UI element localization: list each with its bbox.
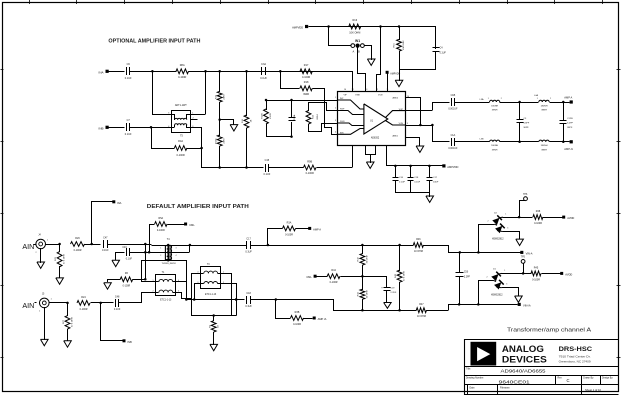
wire <box>108 243 152 246</box>
wire <box>201 148 203 168</box>
svg-text:AMP A: AMP A <box>564 95 572 99</box>
capacitor C3 (shunt) <box>517 102 530 142</box>
svg-text:0.1UF: 0.1UF <box>114 308 121 311</box>
svg-text:R44: R44 <box>331 269 336 272</box>
svg-text:180NH: 180NH <box>491 145 498 147</box>
node AVDD (pad) <box>560 272 572 277</box>
svg-text:16: 16 <box>344 89 346 91</box>
wire <box>176 293 192 299</box>
capacitor C48 <box>114 295 121 311</box>
wire <box>152 127 175 149</box>
svg-text:0.1UF: 0.1UF <box>102 249 109 252</box>
resistor R3A <box>283 221 296 236</box>
node AMP A (net pad) <box>308 227 321 232</box>
svg-text:0-100R: 0-100R <box>306 172 314 175</box>
svg-text:1: 1 <box>537 98 538 100</box>
svg-text:4: 4 <box>335 132 336 134</box>
svg-text:DEVICES: DEVICES <box>502 354 547 364</box>
wire <box>269 167 304 169</box>
wire <box>520 102 539 104</box>
svg-text:0.1UF: 0.1UF <box>440 53 447 55</box>
svg-text:AMPVDD: AMPVDD <box>292 25 303 29</box>
svg-text:R17: R17 <box>304 64 309 67</box>
svg-text:CML: CML <box>189 223 195 227</box>
svg-text:ENB: ENB <box>356 95 361 97</box>
drawing number row <box>466 377 613 385</box>
svg-text:L4A: L4A <box>534 94 538 97</box>
svg-text:R26: R26 <box>75 237 80 240</box>
capacitor C7 <box>125 119 132 136</box>
node AMP A (output pad) <box>564 95 573 103</box>
wire <box>267 135 293 138</box>
svg-text:C17: C17 <box>246 237 251 240</box>
svg-text:4: 4 <box>176 255 177 257</box>
svg-text:ETC1-1-13: ETC1-1-13 <box>160 300 172 302</box>
svg-text:C3A: C3A <box>261 63 266 66</box>
svg-text:1: 1 <box>47 240 48 242</box>
resistor R43 (57.6 OHM, vertical) <box>395 245 406 311</box>
resistor R46 <box>413 238 423 253</box>
wire <box>543 217 563 219</box>
svg-text:0-100R: 0-100R <box>293 323 301 326</box>
wire <box>309 25 436 28</box>
svg-text:0-100R: 0-100R <box>123 286 131 288</box>
svg-text:0-100R: 0-100R <box>532 278 540 281</box>
test point TP5 <box>521 257 526 264</box>
svg-text:2: 2 <box>35 252 36 254</box>
svg-text:R45: R45 <box>534 266 539 269</box>
svg-text:L3B: L3B <box>480 139 484 141</box>
svg-text:R5A: R5A <box>158 217 163 220</box>
svg-text:INN: INN <box>340 133 344 135</box>
wire <box>520 141 539 143</box>
svg-text:RGP: RGP <box>340 109 345 111</box>
ground (pin AMD1) <box>406 138 424 153</box>
svg-text:2: 2 <box>488 220 489 222</box>
transformer T5 (ADT1-1WT) <box>168 104 197 137</box>
wire <box>424 245 462 254</box>
wire <box>192 273 201 316</box>
wire (AMD0 to VON) <box>406 97 422 126</box>
wire <box>358 47 366 92</box>
svg-text:AMPVDD: AMPVDD <box>447 165 458 169</box>
wire <box>523 263 525 273</box>
wire <box>502 272 532 275</box>
wire (AMPVDD rail) <box>387 165 444 168</box>
svg-text:0.1UF: 0.1UF <box>126 259 133 261</box>
svg-text:C: C <box>566 378 569 383</box>
svg-text:0.1UF: 0.1UF <box>263 173 270 176</box>
svg-text:Greensboro, NC 27409: Greensboro, NC 27409 <box>559 360 592 364</box>
wire <box>406 102 450 111</box>
svg-text:R3A: R3A <box>287 221 292 224</box>
svg-text:0-100R: 0-100R <box>330 281 338 284</box>
resistor R26 <box>71 237 85 252</box>
wire <box>460 303 518 306</box>
node CML (lower pad) <box>306 275 316 280</box>
capacitor C19 (2.2UF) <box>381 276 397 303</box>
svg-text:Sheet 1 of 10: Sheet 1 of 10 <box>585 388 601 392</box>
capacitor C18 (series) <box>245 292 252 308</box>
wire <box>377 27 381 92</box>
resistor R5A <box>155 217 168 232</box>
ground <box>210 344 218 350</box>
wire <box>276 299 291 319</box>
svg-text:2: 2 <box>550 98 551 100</box>
resistor R24 <box>77 296 90 311</box>
wire <box>186 260 188 300</box>
wire (amp input node) <box>265 99 338 102</box>
svg-text:3: 3 <box>506 284 507 286</box>
resistor R10B (24R9, vertical) <box>215 71 225 102</box>
svg-text:36PF: 36PF <box>523 127 529 129</box>
resistor R7 (1K, vertical) <box>209 315 219 345</box>
svg-text:TP5: TP5 <box>521 257 526 259</box>
node INA (net pad) <box>112 200 121 205</box>
wire <box>153 71 172 115</box>
svg-text:1: 1 <box>51 299 52 301</box>
wire <box>309 124 338 132</box>
logo text ANALOG DEVICES <box>502 344 547 365</box>
date row <box>470 386 602 392</box>
wire <box>109 127 125 129</box>
inductor L4A (180NH) <box>534 94 551 112</box>
svg-text:R8A: R8A <box>180 64 185 67</box>
wire <box>119 302 142 304</box>
resistor R6 <box>120 273 133 287</box>
svg-text:R4A: R4A <box>178 140 183 143</box>
wire <box>341 275 387 278</box>
svg-text:Filename:: Filename: <box>500 387 510 389</box>
ground <box>41 307 49 346</box>
svg-text:Drawn By:: Drawn By: <box>583 377 594 380</box>
svg-text:39NH: 39NH <box>541 149 547 151</box>
wire <box>329 26 352 46</box>
node CML (pad) <box>184 223 195 228</box>
svg-text:33 OHM: 33 OHM <box>366 290 368 298</box>
wire <box>187 127 203 149</box>
svg-text:AMD1: AMD1 <box>392 135 398 138</box>
op-amp U1 (AD8352) <box>335 89 409 146</box>
resistor R12B (4.12R, vertical) <box>262 100 272 137</box>
svg-text:ANALOG: ANALOG <box>502 344 544 354</box>
svg-text:0.1UF: 0.1UF <box>245 250 252 253</box>
resistor R45 <box>531 266 541 281</box>
wire <box>130 245 190 253</box>
svg-text:INB: INB <box>98 126 103 130</box>
wire <box>479 225 495 253</box>
svg-text:3: 3 <box>176 248 177 250</box>
capacitor C18 <box>408 165 421 193</box>
svg-text:ETC1-1-13: ETC1-1-13 <box>205 294 217 296</box>
resistor R27 (57.6 OHM, vertical) <box>63 302 74 341</box>
svg-text:VIN-A: VIN-A <box>526 251 533 255</box>
wire <box>50 302 69 305</box>
svg-text:R16: R16 <box>353 19 358 22</box>
connector J5 (AIN SMA) <box>39 293 52 312</box>
transformer T1 (ETC1-1-13) <box>153 272 180 301</box>
wire <box>281 71 300 89</box>
resistor R8A <box>176 64 189 79</box>
wire <box>365 45 372 60</box>
svg-text:DEFAULT AMPLIFIER INPUT PATH: DEFAULT AMPLIFIER INPUT PATH <box>147 204 249 210</box>
svg-text:0.1UF: 0.1UF <box>414 181 421 183</box>
wire <box>317 145 353 168</box>
svg-text:AMPVDD: AMPVDD <box>390 72 400 75</box>
wire <box>396 192 430 197</box>
svg-text:390R: 390R <box>303 93 309 96</box>
resistor R41 (33 OHM, vertical) <box>358 276 369 311</box>
svg-text:36PF: 36PF <box>567 127 573 129</box>
wire <box>168 224 185 226</box>
wire <box>130 70 177 73</box>
svg-text:TURNS_RATIO: TURNS_RATIO <box>161 262 176 265</box>
wire <box>460 251 521 254</box>
svg-text:2: 2 <box>160 255 161 257</box>
svg-text:Date:: Date: <box>470 386 476 389</box>
wire <box>503 216 533 219</box>
svg-text:57.6 OHM: 57.6 OHM <box>71 317 73 327</box>
diode D2 (HSMS2812 clamp pair) <box>488 212 509 240</box>
node AMPVDD (supply pad) <box>292 25 308 30</box>
svg-text:VCM: VCM <box>378 95 383 97</box>
svg-text:10 OHM: 10 OHM <box>417 315 426 318</box>
wire <box>150 224 155 252</box>
wire <box>185 298 244 301</box>
wire (ground bus) <box>192 314 237 317</box>
svg-text:2.2UF: 2.2UF <box>390 292 397 294</box>
ground <box>112 252 125 267</box>
wire <box>130 126 172 129</box>
svg-text:10K OHM: 10K OHM <box>349 32 360 35</box>
svg-text:0.1UF: 0.1UF <box>260 77 267 80</box>
svg-text:AIN: AIN <box>22 242 34 251</box>
svg-text:R3B: R3B <box>295 311 300 314</box>
svg-text:R10C: R10C <box>215 138 217 144</box>
svg-text:C15: C15 <box>265 159 270 162</box>
svg-text:0-100R: 0-100R <box>285 233 293 236</box>
svg-text:INB: INB <box>127 340 132 344</box>
svg-text:Transformer/amp channel A: Transformer/amp channel A <box>507 328 591 334</box>
resistor R17 <box>300 64 312 79</box>
wire <box>142 260 156 282</box>
svg-text:Title:: Title: <box>466 368 471 371</box>
resistor R48 <box>533 210 543 225</box>
Analog Devices logo <box>471 342 496 365</box>
svg-text:13: 13 <box>365 89 367 91</box>
resistor R18 <box>300 81 312 96</box>
wire <box>221 284 238 316</box>
svg-text:RGN: RGN <box>340 121 345 123</box>
wire <box>144 244 147 281</box>
title row <box>466 368 546 375</box>
capacitor C3A <box>260 63 267 80</box>
svg-text:0-100R: 0-100R <box>157 229 165 232</box>
node AVDD (pad) <box>562 216 574 221</box>
inductor L3B (180NH) <box>480 139 500 152</box>
wire <box>191 71 206 115</box>
test point TP6 <box>523 194 528 201</box>
wire <box>142 259 187 262</box>
svg-text:39NH: 39NH <box>492 110 498 112</box>
ground <box>56 278 64 284</box>
wire <box>304 318 313 320</box>
svg-text:+: + <box>381 285 383 289</box>
resistor R11 (1K, vertical) <box>242 71 252 168</box>
resistor R25 (57.6 OHM, vertical) <box>55 244 66 278</box>
wire <box>92 201 113 244</box>
wire <box>363 309 417 312</box>
wire <box>91 302 114 305</box>
svg-text:3: 3 <box>335 120 336 122</box>
wire <box>195 284 201 300</box>
resistor R47 <box>416 303 426 318</box>
svg-text:7910 Triad Center Dr.: 7910 Triad Center Dr. <box>559 355 591 359</box>
capacitor C47 <box>102 236 109 252</box>
wire <box>550 141 570 144</box>
address lines <box>559 355 592 364</box>
wire <box>427 303 461 310</box>
wire <box>133 279 146 281</box>
svg-text:1: 1 <box>488 98 489 100</box>
wire <box>363 244 414 247</box>
capacitor C4 <box>433 26 447 70</box>
svg-text:180NH: 180NH <box>541 145 548 147</box>
svg-text:57.6 OHM: 57.6 OHM <box>63 254 65 264</box>
svg-text:C47: C47 <box>103 236 108 239</box>
svg-text:A: A <box>353 50 355 54</box>
wire <box>176 281 187 283</box>
svg-text:0-100R: 0-100R <box>176 154 184 157</box>
svg-text:5.2PF: 5.2PF <box>567 122 574 124</box>
svg-text:57.6 OHM: 57.6 OHM <box>404 271 406 281</box>
resistor R42 (33 OHM, vertical) <box>358 245 369 277</box>
svg-text:0.1UF: 0.1UF <box>245 305 252 308</box>
svg-text:0.001UF: 0.001UF <box>448 147 458 150</box>
svg-text:10K OHM: 10K OHM <box>403 40 405 50</box>
wire <box>313 88 338 135</box>
wire <box>455 102 490 104</box>
svg-text:1: 1 <box>505 214 506 216</box>
connector J4 (AIN SMA) <box>35 234 48 253</box>
ground <box>426 196 434 202</box>
node INB (net pad) <box>123 339 132 344</box>
svg-text:1: 1 <box>160 248 161 250</box>
capacitor C14A <box>289 100 297 137</box>
svg-text:10UF: 10UF <box>433 181 439 183</box>
svg-text:C50: C50 <box>464 271 469 273</box>
svg-text:VOP: VOP <box>399 109 404 111</box>
capacitor C12B (shunt) <box>560 102 574 142</box>
wire <box>85 243 101 246</box>
svg-text:B: B <box>358 50 360 54</box>
ground <box>367 59 375 65</box>
capacitor C15 <box>263 159 270 176</box>
node VIN-/A (pad) <box>518 303 531 308</box>
capacitor C50 (2.2PF) <box>456 252 471 305</box>
svg-text:INA: INA <box>117 201 122 205</box>
wire <box>221 274 232 316</box>
wire <box>542 273 561 275</box>
svg-text:2: 2 <box>487 277 488 279</box>
svg-text:0.1UF: 0.1UF <box>125 77 132 80</box>
resistor R10C (24R9, vertical) <box>215 135 225 168</box>
svg-text:14: 14 <box>351 89 353 91</box>
svg-text:0.1UF: 0.1UF <box>125 133 132 136</box>
svg-text:R12B: R12B <box>262 113 264 119</box>
svg-text:ADT1-1WT: ADT1-1WT <box>175 104 187 107</box>
ground <box>395 69 403 87</box>
svg-text:33 OHM: 33 OHM <box>366 255 368 263</box>
svg-text:VON: VON <box>399 123 404 125</box>
svg-text:AD9640/AD6655: AD9640/AD6655 <box>501 368 546 374</box>
resistor R15 (10K, vertical) <box>394 26 405 70</box>
svg-text:39NH: 39NH <box>492 149 498 151</box>
wire <box>251 298 334 301</box>
ground <box>104 279 121 289</box>
svg-text:AVDD: AVDD <box>567 216 574 220</box>
node VIN-A (pad) <box>520 251 533 256</box>
wire <box>386 145 388 166</box>
wire <box>500 141 521 144</box>
svg-text:CML: CML <box>306 275 312 279</box>
wire <box>479 281 494 305</box>
svg-text:3: 3 <box>507 227 508 229</box>
node INB (top input pad) <box>98 126 108 131</box>
wire <box>101 302 123 341</box>
svg-text:AIN: AIN <box>22 301 34 310</box>
transformer T3 (ETC1-1-13) <box>197 264 224 296</box>
resistor R13 (gain resistor, vertical) <box>306 102 319 132</box>
svg-text:HSMS2812: HSMS2812 <box>491 295 503 297</box>
wire <box>218 102 221 136</box>
svg-text:10 OHM: 10 OHM <box>414 250 423 253</box>
node INA (top input pad) <box>98 70 108 75</box>
ground (op-amp exposed pad) <box>366 146 376 169</box>
svg-text:0.1UF: 0.1UF <box>399 181 406 183</box>
svg-text:R48: R48 <box>536 210 541 213</box>
svg-text:1: 1 <box>335 97 336 99</box>
wire <box>142 292 156 303</box>
svg-text:11: 11 <box>387 89 389 91</box>
node AMPVDD (right pad) <box>442 164 458 169</box>
svg-text:0-100R: 0-100R <box>534 222 542 225</box>
title block frame <box>465 339 619 395</box>
svg-text:OPTIONAL AMPLIFIER INPUT PATH: OPTIONAL AMPLIFIER INPUT PATH <box>108 38 200 44</box>
svg-text:C14A: C14A <box>293 114 296 120</box>
svg-text:2: 2 <box>335 108 336 110</box>
wire <box>189 70 353 73</box>
inductor L3A (180NH) <box>480 98 502 112</box>
svg-text:AMD0: AMD0 <box>392 97 398 100</box>
ground <box>220 119 238 131</box>
capacitor C6 <box>125 63 132 80</box>
svg-text:39NH: 39NH <box>541 110 547 112</box>
wire <box>334 299 364 311</box>
svg-text:0-100R: 0-100R <box>302 76 310 79</box>
node AMP /A (output pad) <box>564 140 573 151</box>
svg-text:12: 12 <box>376 89 378 91</box>
capacitor C1B <box>448 94 458 110</box>
svg-text:2.2PF: 2.2PF <box>464 277 471 279</box>
transformer T4 (common-mode choke) <box>160 238 176 265</box>
inductor L4B (180NH) <box>539 140 549 151</box>
node AMPVDD (pin 11 pad) <box>386 71 401 92</box>
resistor R9B <box>304 160 317 175</box>
svg-text:C12B: C12B <box>567 118 573 120</box>
svg-text:VIN-/A: VIN-/A <box>523 303 531 307</box>
svg-text:AVDD: AVDD <box>565 272 572 276</box>
